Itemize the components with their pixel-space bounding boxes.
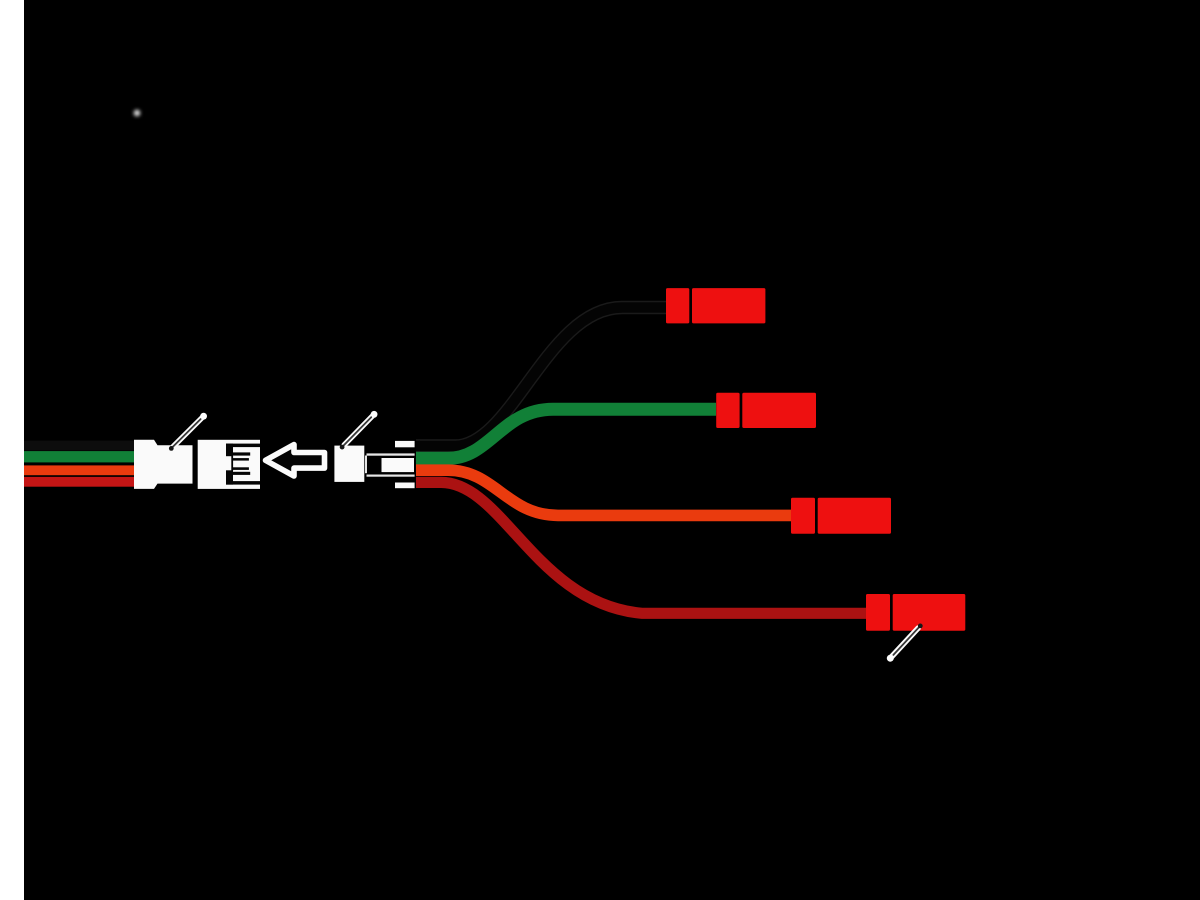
terminal T4 insulated barrel [893, 594, 966, 631]
connector P1 center tongue [382, 458, 415, 472]
wire W2 green, fan-out run to terminal T2 [416, 409, 716, 458]
wire W3 orange, fan-out run to terminal T3 [416, 470, 791, 515]
mating direction arrow [266, 445, 325, 476]
connector P1 plug body block [334, 446, 364, 482]
terminal T3 crimp sleeve [791, 498, 815, 534]
connector J1 contact tooth 2 [233, 458, 249, 461]
wire W4 red, fan-out run to terminal T4 [416, 482, 866, 613]
connector J1 receptacle bottom bar [226, 481, 260, 485]
leader pin callout 1 on J1 [169, 413, 207, 451]
leader pin callout 2 on P1 [340, 411, 378, 450]
connector J1 contact tooth 1 [233, 452, 250, 455]
wire W4 red, left harness segment [24, 477, 135, 487]
dust speck [134, 110, 141, 117]
terminal T2 insulated barrel [742, 393, 816, 428]
connector P1 bottom latch tab [395, 483, 415, 489]
wire W3 orange, left harness segment [24, 465, 135, 475]
connector J1 receptacle left wall thin mid [231, 456, 233, 471]
connector J1 cable boot [134, 440, 193, 489]
connector J1 receptacle left wall upper [226, 444, 233, 457]
connector J1 receptacle top bar [226, 444, 260, 448]
terminal T3 insulated barrel [818, 498, 891, 534]
terminal T1 crimp sleeve [666, 288, 689, 323]
connector P1 lower rim line [367, 475, 415, 477]
connector J1 contact tooth 4 [233, 472, 250, 475]
connector J1 contact tooth 3 [233, 467, 249, 470]
terminal T1 insulated barrel [692, 288, 765, 323]
connector P1 left rim sliver [365, 456, 367, 474]
connector J1 receptacle left wall lower [226, 470, 233, 484]
wire W2 green, left harness segment [24, 451, 135, 462]
connector P1 upper rim line [367, 453, 415, 455]
white page margin strip [0, 0, 24, 900]
leader pin callout 3 on terminal T4 [887, 624, 923, 662]
connector P1 top latch tab [395, 441, 415, 447]
wire W1 black, fan-out run to terminal T1 [416, 308, 666, 447]
connector J1 housing body [198, 440, 260, 489]
terminal T4 crimp sleeve [866, 594, 890, 631]
wire W1 black, left harness segment [24, 441, 135, 451]
terminal T2 crimp sleeve [716, 393, 739, 428]
